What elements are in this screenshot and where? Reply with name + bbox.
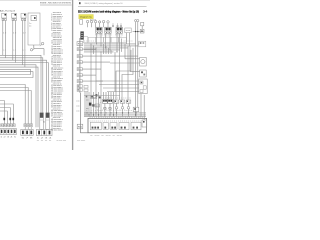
page divider line (71, 0, 73, 150)
fuse label box F (77, 42, 83, 46)
splice symbol (30, 49, 34, 51)
dark bus bar (80, 31, 83, 39)
lamp symbol row (115, 103, 118, 116)
svg-text:2x: 2x (29, 25, 32, 27)
wire to terminal label (0, 85, 25, 124)
svg-text:54 xxxx xxxxx x: 54 xxxx xxxxx x (51, 130, 63, 132)
long vertical wire (100, 52, 102, 117)
left page header rule (40, 4, 72, 6)
relay enclosure box (28, 13, 40, 45)
ECU inner module 4 (119, 122, 129, 129)
lamp symbol row (127, 103, 130, 116)
svg-text:a b: a b (23, 50, 26, 52)
fuse box (77, 48, 82, 51)
circle node (102, 20, 105, 27)
ecu left feed wire (80, 93, 88, 133)
svg-text:D: D (43, 121, 46, 123)
lamp symbol (104, 103, 107, 116)
bus wire right page (84, 47, 128, 49)
terminal label box right (30, 124, 33, 127)
bus wire corner loop (0, 69, 31, 74)
svg-text:x x x x: x x x x (37, 140, 53, 142)
svg-text:xx: xx (79, 62, 82, 64)
junction dots above ecu (86, 112, 136, 115)
junction row (133, 31, 144, 32)
wire corner vertical (124, 44, 126, 59)
svg-text:1 2 3 4 5: 1 2 3 4 5 (0, 137, 16, 139)
wire color labels row1 (3, 33, 26, 35)
vertical wire lower (88, 92, 90, 117)
relay pin wire (119, 34, 121, 100)
wire from connector pin (2, 21, 4, 56)
bus wire corner loop (0, 72, 33, 78)
svg-text:1 2: 1 2 (13, 33, 16, 35)
bus wire with downturn (0, 58, 43, 113)
svg-text:a b: a b (3, 50, 6, 52)
earth label box (77, 124, 83, 129)
svg-text:EDC 15C/VM control unit wiring: EDC 15C/VM control unit wiring diagram -… (78, 11, 139, 14)
ECU inner module 5 (131, 122, 141, 130)
label box row (120, 100, 125, 104)
ECU box U1 (88, 118, 147, 132)
right header mark (79, 2, 81, 4)
sensor strip labels (37, 138, 53, 142)
connector A pins (2, 18, 6, 20)
bus wire with downturn (0, 63, 48, 114)
svg-text:xx: xx (79, 49, 82, 51)
svg-text:x x x x x: x x x x x (124, 40, 134, 42)
legend text column (51, 12, 63, 131)
wire label to strip (27, 127, 29, 130)
vertical wire lower (84, 92, 86, 117)
long vertical wire (93, 46, 95, 54)
inline connector blob (12, 118, 14, 120)
bus wire above ecu 2 (84, 114, 146, 116)
svg-text:x x x x x x x x x x x x x x: x x x x x x x x x x x x x x (103, 97, 132, 99)
wire branch h1 (0, 101, 4, 124)
svg-text:x xx x xx: x xx x xx (116, 37, 123, 39)
svg-text:2004 | DOBLO | wiring diagrams: 2004 | DOBLO | wiring diagrams | section… (85, 2, 123, 5)
wire to terminal label (0, 91, 31, 124)
svg-text:xx xxx xxx: xx xxx xxx (57, 140, 67, 142)
svg-text:86 30 87 85: 86 30 87 85 (104, 35, 112, 37)
terminal label box (4, 124, 7, 127)
dark blob e (86, 95, 88, 97)
vertical wire x137.8 (137, 22, 139, 107)
circle top x137.8 (137, 20, 139, 22)
lamp symbol row (121, 103, 124, 116)
circle node (90, 20, 93, 27)
wire corner vertical (114, 52, 116, 92)
wire to right component (110, 62, 140, 64)
battery feed wire (143, 95, 145, 120)
page divider shadow (72, 0, 74, 150)
inner relay module (31, 16, 37, 21)
svg-text:xxx xxxx: xxx xxxx (77, 140, 85, 142)
svg-text:xx: xx (86, 100, 89, 102)
relay box (116, 27, 122, 33)
ECU inner module 2 (103, 123, 108, 130)
relay pin wire (121, 39, 123, 52)
svg-text:x 1 x 2 x 3 x 4 x 5 x 6 x 7 x: x 1 x 2 x 3 x 4 x 5 x 6 x 7 x 8 x 9 x 0 … (86, 110, 133, 112)
fuse output wire (82, 55, 138, 57)
right component B3 (139, 79, 147, 94)
svg-text:M1: M1 (78, 127, 82, 129)
bus wire above ecu 3 (84, 116, 146, 118)
splice symbol upper (40, 42, 44, 46)
svg-text:ENGINE - FUEL INJECTION SYSTEM: ENGINE - FUEL INJECTION SYSTEM 90 (40, 3, 72, 5)
circle node (86, 20, 89, 27)
svg-text:A40 - Fuel inj wh: A40 - Fuel inj wh (0, 10, 16, 13)
svg-text:x: x (100, 102, 101, 104)
fuse output wire (82, 74, 96, 76)
wire from enclosure bottom (34, 45, 44, 49)
ECU inner module 3 (110, 123, 117, 130)
right header rule (78, 5, 147, 7)
wire from connector pin (12, 21, 14, 61)
bus wire with downturn (0, 55, 41, 113)
vertical wire to component (103, 44, 105, 54)
svg-text:xx: xx (76, 110, 80, 112)
vertical wire to label (122, 48, 133, 100)
relay pin wire (105, 34, 107, 48)
vertical wire to label (127, 46, 129, 100)
wire to right component (130, 71, 140, 73)
right component B2 (140, 70, 147, 77)
injector component (40, 113, 44, 130)
svg-text:xx: xx (86, 108, 89, 110)
connector frame row (88, 37, 126, 42)
injector component (46, 113, 50, 130)
stub wire (112, 23, 114, 27)
right component B1 (140, 57, 147, 66)
long vertical wire (95, 48, 97, 117)
svg-text:xx: xx (96, 105, 100, 107)
terminal strip right (21, 129, 33, 135)
bus wire with downturn (0, 65, 36, 128)
svg-text:xx: xx (79, 75, 82, 77)
vertical wire to component (110, 50, 112, 54)
terminal label box (1, 124, 4, 127)
terminal label box (7, 124, 10, 127)
circle node small (99, 21, 101, 28)
fuse cluster (77, 85, 88, 92)
stub wire (117, 23, 119, 27)
svg-text:xxx: xxx (126, 30, 131, 32)
fuse output wire (82, 68, 101, 70)
component box mid (133, 107, 139, 116)
terminal label box (10, 124, 13, 127)
vertical wire to component (105, 46, 107, 54)
terminal label box (13, 124, 16, 127)
svg-text:86 30 87 85: 86 30 87 85 (115, 35, 123, 37)
svg-text:x xx x xx x xx: x xx x xx x xx (90, 135, 123, 137)
bus junction dots (90, 43, 117, 52)
circle node (94, 20, 97, 27)
stub wire (120, 23, 122, 27)
svg-text:1 2: 1 2 (23, 33, 26, 35)
inline connector blob (9, 118, 11, 120)
long vertical wire (90, 44, 92, 117)
relay pin wire (100, 34, 102, 46)
wire across y95.6 (84, 95, 120, 97)
wire to right component (107, 91, 139, 93)
inline connector blob (3, 118, 5, 120)
yellow highlight label (79, 15, 94, 19)
bus wire above ecu 1 (84, 112, 146, 114)
label box row (126, 100, 131, 104)
small box 2 (140, 29, 144, 33)
svg-text:86 30 87 85: 86 30 87 85 (95, 35, 103, 37)
svg-text:xx: xx (79, 56, 82, 58)
fuse output wire (82, 48, 96, 50)
terminal label box right (27, 124, 30, 127)
wire to right component (103, 87, 139, 89)
fuse box (77, 61, 82, 64)
vertical wire to component (108, 48, 110, 54)
small component box (125, 28, 131, 33)
left bracket box (84, 37, 88, 43)
bus wire right page (84, 49, 120, 51)
wire from connector pin (24, 21, 26, 68)
connector block top right (138, 41, 146, 47)
lamp symbol (109, 103, 112, 116)
terminal strip left (0, 129, 17, 135)
pad component (103, 99, 108, 103)
label box L2 (95, 104, 99, 107)
dark blob a (89, 103, 92, 106)
bus wire with downturn (0, 67, 38, 127)
wire corner vertical (129, 46, 131, 72)
ECU inner module 1 (90, 122, 101, 130)
relay box (105, 27, 111, 33)
left page top faint rule (0, 0, 72, 2)
svg-text:34: 34 (143, 11, 149, 14)
svg-text:xx: xx (79, 69, 82, 71)
right page top faint rule (78, 0, 150, 2)
connector A body (2, 13, 7, 18)
fuse box (77, 80, 82, 83)
connector C pins (22, 18, 26, 20)
wire from connector pin (4, 21, 6, 58)
B3 drop wire (140, 94, 142, 117)
connector C body (21, 13, 26, 18)
svg-text:xx: xx (79, 81, 82, 83)
relay box (96, 27, 102, 33)
bus wire right page (84, 45, 138, 47)
battery box (142, 120, 147, 127)
terminal strip sensors (36, 129, 52, 135)
relay pin wire (116, 34, 118, 52)
label box row (114, 100, 119, 104)
svg-text:1 2: 1 2 (3, 33, 6, 35)
terminal label box right (24, 124, 27, 127)
svg-text:xx: xx (93, 97, 96, 99)
svg-text:1 2 3 4: 1 2 3 4 (37, 138, 52, 140)
svg-text:xx: xx (76, 100, 80, 102)
connector B pins (12, 18, 16, 20)
enclosure feed to bus (43, 49, 45, 56)
circle top x135.6 (135, 20, 137, 22)
wire to right component (96, 80, 139, 82)
fuse column bus (79, 38, 81, 93)
component box stubs (127, 33, 130, 46)
wire branch h4 (0, 111, 7, 124)
svg-text:xx: xx (76, 105, 80, 107)
wire label to strip (24, 127, 26, 130)
ECU connector pins (90, 116, 143, 118)
relay pin wire (109, 34, 111, 50)
connector B body (12, 13, 17, 18)
svg-text:6 7 8: 6 7 8 (22, 137, 33, 139)
vertical wire lower (86, 92, 88, 117)
relay pin wire (96, 34, 98, 44)
vertical wire x135.6 (135, 22, 137, 117)
svg-text:a b: a b (13, 50, 16, 52)
circle group frame (90, 19, 95, 21)
vertical wire lower (113, 92, 115, 117)
fuse box (77, 55, 82, 58)
dark blob c (95, 94, 97, 96)
svg-text:x x x x x x: x x x x x x (84, 40, 94, 42)
svg-text:Diagram 5a: Diagram 5a (80, 17, 93, 19)
dark blob d (99, 96, 101, 98)
fuse box (77, 74, 82, 77)
dark blob b (92, 104, 94, 106)
fuse box (77, 68, 82, 71)
fuse output wire (82, 80, 103, 82)
bus wire with downturn (0, 60, 47, 113)
vertical wire to label (116, 50, 131, 100)
wire to terminal label (0, 88, 28, 124)
enclosure pin labels (29, 23, 32, 27)
wire branch h2 (0, 104, 13, 124)
bus wire right page (84, 51, 114, 53)
vertical wire lower (98, 92, 100, 117)
wire to right component (99, 84, 139, 86)
pad component (108, 99, 113, 103)
wire to right component (125, 58, 140, 60)
small box on stem (141, 22, 144, 29)
wire branch h3 (0, 108, 10, 124)
bus wire right page (84, 43, 136, 45)
circle node label box (80, 20, 83, 25)
circle node f (107, 21, 109, 28)
wire from connector pin (21, 21, 23, 65)
wire label to strip (30, 127, 32, 130)
fuse output wire (82, 61, 110, 63)
wire color labels row2 (3, 50, 26, 52)
wire from connector pin (14, 21, 16, 63)
label box L1 (91, 95, 97, 99)
